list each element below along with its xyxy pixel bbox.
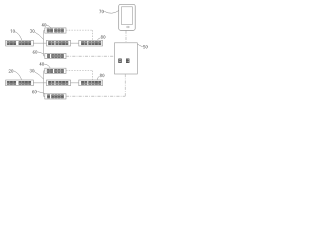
text blobs E1 <box>81 42 100 45</box>
box A2 (device 20) <box>6 80 34 86</box>
wire phone 70 to box 50 <box>125 31 127 43</box>
dashed wires B to E <box>66 30 93 80</box>
leader 80 top <box>98 38 101 40</box>
phone 70 outer <box>119 4 136 30</box>
box A1 (device 10) <box>6 40 34 46</box>
label 40 bottom <box>40 62 44 65</box>
wire A1 to branch <box>33 42 43 44</box>
box E2 (wireless module 80 bottom) <box>79 80 103 86</box>
leader 20 <box>14 71 22 80</box>
wire branch to D2 <box>44 95 45 97</box>
wire A2 to branch <box>33 82 43 84</box>
leader 50 <box>138 44 143 47</box>
text blobs box 50 <box>119 59 129 63</box>
leader lines <box>14 11 143 94</box>
box B1 (sensor 40 top) <box>45 28 66 33</box>
text blobs D2 <box>47 95 63 98</box>
box 50 (server) <box>115 43 138 74</box>
leader 70 <box>104 11 118 14</box>
leader 10 <box>15 32 22 41</box>
label 60 top <box>33 50 37 53</box>
leader 40 top <box>47 25 51 28</box>
box E1 (wireless module 80) <box>79 40 103 46</box>
wire D1 to box 50 <box>66 55 115 57</box>
leader 60 top <box>38 52 44 54</box>
wire B1 to E1 dashed <box>66 30 93 40</box>
labels <box>9 10 148 93</box>
box C2 (module 30 bottom cluster) <box>47 80 71 86</box>
leader 60 bottom <box>38 92 46 94</box>
label 50 <box>143 45 147 48</box>
wire branch vertical bottom <box>43 71 45 97</box>
label 20 <box>9 69 13 72</box>
wire branch to C1 <box>44 42 47 44</box>
leader 40 bottom <box>45 64 51 68</box>
phone 70 screen <box>122 7 133 25</box>
text blobs D1 <box>47 54 63 57</box>
wire branch to D1 <box>44 55 45 57</box>
label 70 <box>99 10 103 13</box>
box D1 (module 60 bottom) <box>45 53 66 58</box>
wire C2 to E2 <box>71 82 79 84</box>
label 40 top <box>42 23 46 26</box>
text blobs C2 <box>49 81 68 84</box>
leader 80 bottom <box>97 76 99 80</box>
wire branch vertical top <box>43 31 45 57</box>
label 60 bottom <box>32 90 36 93</box>
box D2 (module 60 bottom cluster) <box>45 94 66 99</box>
label 10 <box>11 30 15 33</box>
text blobs E2 <box>81 81 100 84</box>
leader 30 bottom <box>34 71 44 79</box>
label 80 bottom <box>100 74 104 77</box>
dash-dot wires to 50 <box>66 31 126 97</box>
wire D2 to box 50 bottom <box>66 74 125 96</box>
text blobs A2 <box>7 81 31 84</box>
leader 30 top <box>34 32 44 40</box>
label 30 bottom <box>30 69 34 72</box>
phone 70 home button <box>127 26 130 28</box>
box B2 (sensor 40 bottom cluster) <box>45 68 66 73</box>
text blobs B2 <box>47 69 63 72</box>
text blobs B1 <box>47 29 63 32</box>
box C1 (module 30 middle) <box>47 40 71 46</box>
wires solid top cluster <box>33 31 79 97</box>
wire branch to B1 <box>44 30 45 32</box>
text blobs C1 <box>49 42 68 45</box>
wire B2 to E2 dashed <box>66 71 93 80</box>
label 30 top <box>30 29 34 32</box>
text blobs A1 <box>7 42 31 45</box>
wire branch to C2 <box>44 82 47 84</box>
label 80 top <box>101 35 105 38</box>
wire C1 to E1 <box>71 42 79 44</box>
wire branch to B2 <box>44 70 45 72</box>
